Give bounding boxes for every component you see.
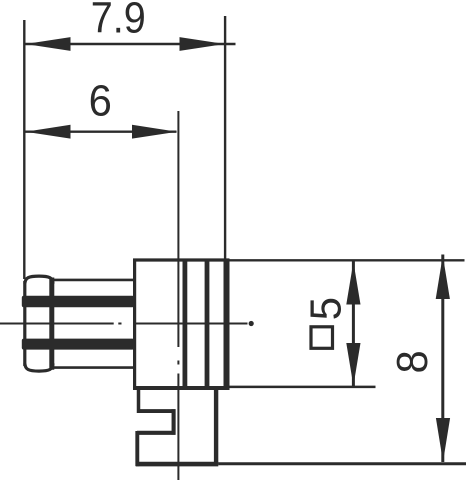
left leg upper outer — [137, 388, 141, 413]
left leg lower outer — [135, 431, 139, 466]
arrowhead square5 down — [346, 343, 360, 386]
legs bottom edge — [136, 462, 218, 467]
extension line right (x=225) — [224, 16, 226, 259]
cap top arc — [25, 276, 53, 283]
right leg — [214, 388, 218, 465]
dimension line 8 — [441, 255, 444, 463]
contact band bottom — [22, 339, 134, 350]
shell bottom line — [52, 366, 135, 369]
horizontal centerline — [0, 323, 114, 325]
extension line left (x=24.3) — [23, 20, 25, 279]
leg notch right — [172, 409, 176, 435]
body top edge — [133, 258, 229, 261]
svg-text:5: 5 — [302, 297, 351, 320]
shell top line — [52, 279, 135, 282]
arrowhead square5 up — [346, 262, 360, 305]
leg notch top — [137, 409, 176, 413]
arrowhead 6 right — [132, 125, 177, 139]
arrowhead 8 up — [436, 256, 450, 300]
body left edge — [133, 259, 136, 391]
svg-text:8: 8 — [388, 350, 437, 373]
cap left edge — [23, 281, 26, 366]
body inner vertical line 2 — [205, 259, 210, 391]
extension line bottom square5 — [229, 386, 375, 389]
arrowhead 7.9 left — [25, 37, 70, 51]
vertical centerline — [177, 111, 179, 347]
arrowhead 6 left — [25, 125, 70, 139]
dimension label square5: square symbol — [311, 327, 333, 349]
cap bottom arc — [25, 364, 53, 372]
extension line bottom 8 — [218, 462, 466, 465]
cap right edge — [49, 278, 54, 370]
body right edge — [224, 259, 230, 391]
dimension line 6 — [25, 130, 177, 132]
leg notch bottom — [137, 431, 176, 435]
arrowhead 8 down — [436, 418, 450, 462]
dimension line square5 — [352, 262, 355, 387]
body inner vertical line 1 — [182, 259, 187, 391]
centerline end dot — [249, 321, 254, 326]
dimension line 7.9 — [25, 43, 236, 45]
arrowhead 7.9 right — [180, 37, 225, 51]
svg-text:6: 6 — [89, 76, 112, 125]
extension line top right — [229, 259, 464, 261]
contact band top — [22, 296, 134, 307]
svg-text:7.9: 7.9 — [91, 0, 146, 42]
body bottom edge — [133, 386, 229, 390]
